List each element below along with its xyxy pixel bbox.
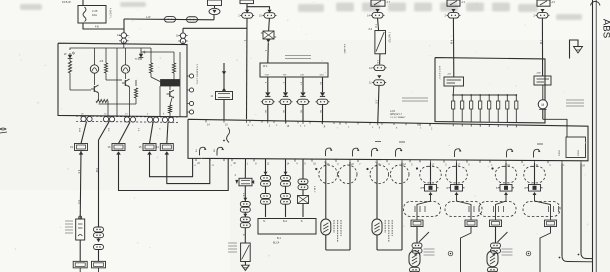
arrow below dark R: [533, 192, 537, 195]
wire split below fuse: [247, 4, 270, 10]
circled number (cut) top right: [591, 1, 601, 5]
actuator annotation: [402, 98, 428, 101]
terminal: [189, 110, 193, 114]
U link connector 4 to ECU pin 210: [167, 153, 210, 184]
speed sensor: [372, 219, 382, 235]
harness connector 19: [70, 144, 87, 155]
svg-text:A 03 7 4 8 0 7: A 03 7 4 8 0 7: [438, 66, 441, 80]
ABS ECU box: [188, 119, 588, 161]
wire meter pin to column 2: [99, 122, 110, 140]
shield circle R: [390, 165, 409, 184]
shield bar: [377, 249, 402, 251]
meter pin: [162, 117, 167, 122]
svg-text:8 G: 8 G: [375, 100, 377, 104]
connector dark R: [447, 185, 465, 192]
inline connector col2b: [94, 245, 104, 250]
ECU ground wire 2: [580, 163, 582, 253]
arrow: [377, 75, 381, 78]
svg-text:GND2: GND2: [577, 150, 579, 157]
ECU right sub box: [566, 137, 586, 158]
svg-text:6 R: 6 R: [376, 60, 378, 64]
ECU driver hook: [396, 148, 403, 156]
wire bus at y19: [124, 18, 214, 21]
ECU driver hook: [372, 148, 379, 156]
arrow below dark L: [429, 192, 433, 195]
noise filter box: [261, 31, 276, 39]
noise filter (diag ground): [241, 243, 251, 262]
ECU driver hook: [507, 149, 514, 157]
resistor: [104, 63, 107, 73]
wheel speed sensor group rear at 377: [376, 162, 378, 219]
meter pin: [81, 116, 86, 121]
speed sensor: [409, 251, 420, 267]
filter annotation: [228, 243, 237, 252]
svg-text:4 B1 Y: 4 B1 Y: [313, 186, 315, 193]
svg-text:7 R: 7 R: [374, 24, 376, 28]
connector below fuse L: [238, 13, 254, 19]
solenoid coil at 507: [506, 94, 509, 122]
noise filter diode oval: [209, 8, 220, 14]
connector: [445, 13, 461, 18]
pump motor: [542, 85, 544, 100]
connector arrow: [540, 9, 544, 12]
dashed housing R: [445, 202, 482, 217]
shield stadium R: [446, 166, 467, 183]
svg-text:4 B: 4 B: [77, 170, 79, 174]
connector: [534, 13, 550, 18]
arrow diag1: [243, 198, 247, 201]
solenoid coil at 498: [497, 94, 500, 122]
wire breaker to meter connector: [83, 23, 124, 29]
connector arrow: [451, 9, 455, 12]
terminal: [189, 88, 193, 92]
ovals Tc: [281, 176, 291, 187]
svg-text:ABS]>E'1-7: ABS]>E'1-7: [390, 113, 403, 116]
meter pin: [168, 117, 173, 122]
svg-text:ABS: ABS: [601, 19, 610, 38]
arrow below noise filter: [266, 39, 270, 42]
diag connector: [235, 178, 254, 186]
svg-text:BLC4: BLC4: [273, 242, 280, 245]
motor wire to bus: [542, 109, 544, 119]
svg-text:SST: SST: [320, 75, 325, 77]
svg-text:B R: B R: [77, 200, 79, 204]
harness connector 15: [139, 144, 156, 155]
DLC1 box: [258, 219, 316, 235]
DLC column E1: [302, 159, 304, 179]
ECU top pin labels: [205, 120, 207, 123]
ECU driver hook: [326, 148, 333, 156]
connector: [261, 99, 275, 104]
resistor R4: [172, 63, 175, 73]
indicator lamp: [121, 65, 129, 73]
arrow: [222, 71, 226, 75]
ECU regulator curve: [227, 128, 230, 143]
fuse/switch box at 537: [537, 0, 550, 6]
solenoid bus: [452, 86, 455, 95]
ground symbol top right: [570, 40, 579, 59]
resistor R5: [96, 99, 108, 102]
connector E1: [298, 196, 309, 204]
diode: [283, 92, 288, 96]
ovals Ts: [261, 176, 271, 187]
connector dark L: [421, 185, 439, 192]
wire fuse down to ECU: [246, 18, 249, 119]
stop connector 2: [369, 80, 386, 86]
harness connector 16: [108, 144, 125, 155]
solenoid coil at 480: [479, 94, 482, 122]
arrow Ts: [264, 172, 268, 175]
branch to combination meter: [183, 27, 247, 29]
floor harness connector 2: [92, 261, 106, 268]
circuit breaker box: [78, 6, 106, 24]
connector: [316, 99, 330, 104]
LED: [139, 51, 146, 60]
annotation above check connector: [285, 56, 311, 59]
shield circle L: [370, 165, 389, 184]
ECU driver hook: [534, 149, 541, 157]
meter internal bus: [70, 48, 151, 50]
ECU top inner tick row: [249, 120, 251, 122]
ovals to sensor: [491, 243, 501, 253]
switch annotation text: [65, 221, 73, 233]
diode: [320, 92, 325, 96]
wheel speed sensor group rear at 325.8: [325, 162, 327, 219]
meter IC block: [161, 80, 180, 87]
resistor R6: [134, 88, 137, 98]
wire to ECU: [223, 100, 225, 121]
arrow below dark R: [455, 192, 459, 195]
resistor R1: [68, 61, 71, 73]
ABS actuator box: [435, 58, 545, 123]
svg-text:6 70 B 4R9 B 1 4 8 1: 6 70 B 4R9 B 1 4 8 1: [196, 64, 198, 85]
connector stack: [178, 33, 187, 44]
combination meter box: [58, 43, 187, 117]
sensor label columns: [334, 220, 341, 242]
wire jr down: [461, 227, 472, 272]
svg-text:TST: TST: [283, 75, 288, 77]
solenoid coil at 462: [461, 94, 464, 122]
connector to ECU pin W: [223, 63, 225, 92]
terminal: [189, 74, 193, 78]
ovals to sensor: [412, 243, 422, 253]
connector arrow R: [267, 10, 271, 13]
fuse GAUGE: [240, 0, 254, 4]
connector ovals diag2: [240, 217, 250, 228]
sensor text: [502, 249, 513, 255]
inline connector J2: [185, 17, 199, 23]
page border right: [592, 0, 594, 272]
DLC column Ts: [265, 159, 267, 176]
stop connector 1: [369, 65, 386, 71]
svg-text:7J+1I-7 8MARY: 7J+1I-7 8MARY: [390, 116, 406, 119]
svg-text:GND1: GND1: [558, 150, 560, 157]
wire column 1 (brake fluid switch): [79, 151, 82, 219]
svg-text:W A: W A: [263, 65, 268, 68]
svg-text:4-B: 4-B: [95, 26, 99, 29]
fuse/switch box at 447: [447, 0, 460, 6]
sensor second lead: [419, 232, 429, 242]
svg-text:A B: A B: [100, 60, 104, 63]
wire meter pin to connector 4: [167, 122, 168, 143]
shield stadium L: [420, 166, 441, 183]
arrow diag2: [243, 214, 247, 217]
connector small R: [545, 220, 557, 227]
inline connector pair col2: [94, 227, 104, 238]
brake fluid level switch: [76, 216, 85, 240]
ovals Ts2: [261, 194, 271, 205]
meter internal drop wires: [116, 48, 118, 116]
shield stadium R: [524, 166, 545, 183]
svg-text:10A: 10A: [92, 13, 97, 17]
wire stop box to connectors: [379, 54, 381, 65]
sensor text: [424, 249, 435, 255]
DLC column Tc: [285, 159, 287, 176]
wire meter pin to connector 2: [119, 122, 131, 144]
floor harness connector 1: [73, 261, 87, 268]
wheel speed sensor group front at 506: [505, 163, 507, 185]
dashed housing R: [523, 202, 560, 217]
wire up to diode: [213, 15, 215, 20]
connector small R: [465, 220, 477, 227]
connector: [279, 99, 293, 104]
connector below fuse R: [259, 13, 276, 19]
shield circle L: [319, 165, 338, 184]
resistor R3: [149, 63, 152, 73]
wire meter pin to connector 1: [81, 122, 87, 144]
meter pin: [130, 117, 135, 122]
svg-text:+BM: +BM: [536, 73, 541, 75]
resistor R7: [168, 105, 171, 113]
shield bar: [326, 249, 350, 251]
meter pin: [109, 117, 114, 122]
ECU driver hook: [217, 147, 224, 155]
actuator aux wire: [543, 119, 567, 137]
indicator lamp: [90, 65, 98, 73]
meter pin: [153, 117, 158, 122]
svg-text:15 B-W: 15 B-W: [62, 0, 71, 4]
svg-text:7.Hy7'7'J7: 7.Hy7'7'J7: [388, 32, 390, 43]
meter pin: [103, 117, 108, 122]
meter pin: [124, 117, 129, 122]
connector small L: [490, 220, 502, 227]
svg-text:GST: GST: [265, 75, 270, 77]
wire to stop lamp resistor: [378, 18, 379, 31]
diode: [265, 92, 270, 96]
sensor lead shield: [376, 235, 378, 250]
arrow Tc: [284, 172, 288, 175]
inline connector J1: [163, 17, 177, 23]
solenoid relay box: [444, 77, 464, 86]
fuse box above diode: [208, 0, 222, 6]
wire stop to ECU: [378, 85, 379, 122]
diode: [300, 92, 305, 96]
connector small L: [411, 220, 423, 227]
ECU driver hook: [353, 148, 360, 156]
stop lamp switch box: [371, 0, 385, 6]
ECU driver hook: [455, 149, 462, 157]
wire to bottom connector 1: [79, 240, 81, 261]
harness connector 14: [156, 144, 173, 155]
wire to actuator motor relay: [541, 18, 543, 76]
connector W: [216, 92, 233, 100]
U link connector 2 to ECU pin 228: [119, 153, 229, 191]
shield stadium L: [495, 166, 516, 183]
connector stop switch: [367, 13, 384, 18]
stop lamp load box: [375, 31, 386, 54]
left edge mark: [0, 128, 7, 133]
solenoid coil at 453: [452, 94, 455, 122]
arrow below dark L: [504, 192, 508, 195]
wire meter pin to connector 3: [150, 122, 154, 143]
dashed housing L: [404, 202, 441, 217]
svg-text:4 Y: 4 Y: [299, 82, 301, 86]
circuit breaker element: [83, 7, 86, 22]
ground arrow diag: [244, 262, 246, 266]
ECU driver hook: [200, 147, 207, 155]
svg-text:4 B-W F L: 4 B-W F L: [109, 8, 112, 19]
check connector output 4 Y: [302, 77, 304, 92]
sensor lead shield: [325, 235, 327, 250]
shield circle R: [338, 165, 357, 184]
wheel speed sensor group front at 430.5: [430, 162, 432, 185]
speed sensor: [487, 251, 498, 267]
svg-text:M: M: [541, 103, 544, 107]
ovals below sensor: [488, 267, 498, 272]
wire to actuator +B: [452, 18, 454, 77]
transistor Q1: [91, 85, 99, 93]
meter pin: [87, 116, 92, 121]
diag column wire: [244, 159, 246, 178]
check connector output 4: [267, 77, 269, 92]
wire jr down: [540, 227, 551, 272]
connector ovals diag1: [240, 202, 250, 213]
connector arrow: [375, 9, 379, 12]
arrow col2: [96, 239, 100, 242]
wire column 2: [98, 140, 100, 227]
svg-text:CST: CST: [300, 75, 305, 77]
ovals Tc2: [281, 194, 291, 205]
annotation right of actuator: [566, 100, 584, 106]
meter pin: [147, 117, 152, 122]
LED: [68, 52, 75, 61]
solenoid coil at 471: [470, 94, 473, 122]
check connector output 8: [285, 77, 287, 92]
solenoid coil at 516: [515, 94, 518, 123]
meter bottom connector row: [76, 116, 178, 117]
svg-text:1-W: 1-W: [146, 16, 151, 19]
connector arrow L: [245, 10, 249, 13]
sensor second lead: [498, 232, 508, 242]
ECU bottom pin ticks: [195, 158, 197, 161]
decorative ghosts (page bleed-through): [20, 2, 582, 20]
svg-text:B-1: B-1: [277, 237, 282, 240]
U link connector 3 to ECU pin 193: [150, 153, 193, 177]
check connector box: [260, 63, 328, 77]
svg-text:4 B: 4 B: [242, 193, 244, 197]
wire to noise filter: [268, 18, 271, 31]
connector dark R: [525, 185, 543, 192]
check connector output 88: [322, 77, 324, 92]
sensor label columns: [385, 220, 392, 242]
ECU ground wire 1: [561, 163, 563, 256]
speed sensor: [321, 219, 331, 235]
connector: [296, 99, 310, 104]
dashed housing L: [479, 202, 516, 217]
connector dark L: [496, 185, 514, 192]
svg-text:TY-R: TY-R: [135, 59, 140, 61]
wire from top to circuit breaker: [82, 0, 84, 6]
motor relay box: [534, 76, 551, 85]
ovals below sensor: [410, 267, 420, 272]
meter internal wires lower: [69, 73, 71, 90]
svg-text:A 03: A 03: [390, 110, 395, 113]
terminal: [189, 101, 193, 105]
solenoid coil at 489: [488, 94, 491, 122]
ovals E1: [298, 179, 308, 190]
svg-text:E A -448Y: E A -448Y: [343, 44, 346, 54]
transistor Q2: [122, 79, 130, 87]
connector stack: [119, 33, 128, 44]
side arrow: [235, 180, 238, 184]
svg-text:B+1: B+1: [283, 221, 288, 223]
transistor Q3: [167, 90, 175, 98]
